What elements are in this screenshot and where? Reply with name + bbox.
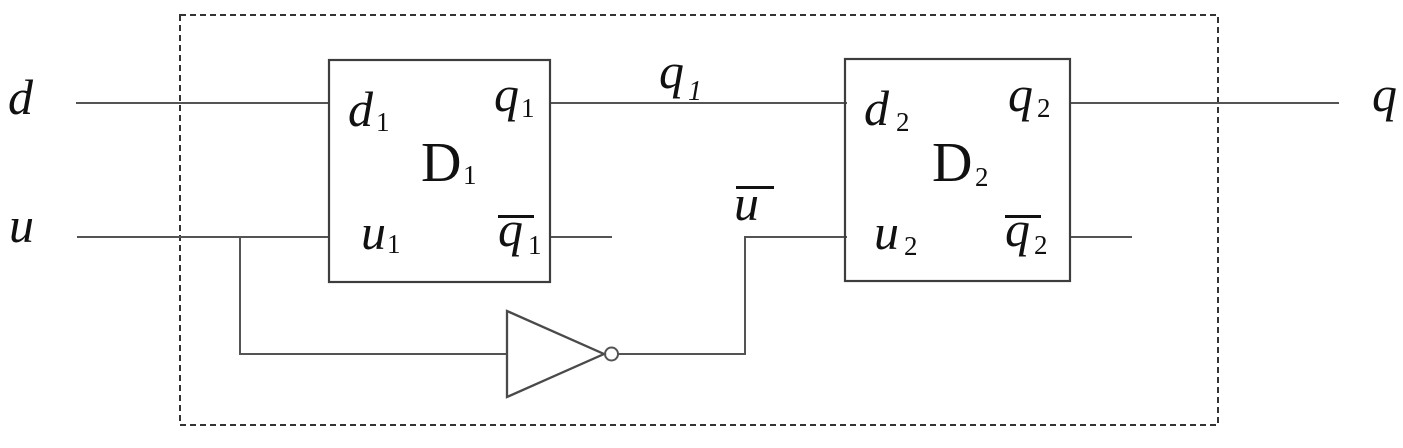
- label D2: [932, 132, 989, 194]
- svg-text:1: 1: [688, 76, 702, 107]
- svg-text:u: u: [734, 175, 759, 231]
- svg-text:q: q: [1372, 66, 1397, 122]
- svg-text:u: u: [874, 204, 899, 260]
- svg-text:1: 1: [528, 230, 542, 260]
- svg-text:2: 2: [1037, 93, 1051, 123]
- dashed enclosure border: [180, 15, 1218, 425]
- pin d1: [348, 81, 390, 137]
- wire rise to ubar: [744, 237, 746, 355]
- svg-text:1: 1: [463, 160, 477, 190]
- pin qbar1: [498, 201, 542, 260]
- pin qbar2: [1005, 201, 1048, 260]
- svg-text:q: q: [1008, 66, 1033, 122]
- svg-text:2: 2: [975, 162, 989, 192]
- svg-text:D: D: [421, 132, 461, 194]
- wire u input to D1: [77, 236, 329, 238]
- label D1: [421, 132, 477, 194]
- svg-text:q: q: [1005, 201, 1030, 257]
- wire d input to D1: [76, 102, 329, 104]
- wire junction drop from u: [239, 237, 241, 355]
- svg-text:u: u: [361, 204, 386, 260]
- svg-text:d: d: [8, 69, 34, 125]
- pin q1: [494, 66, 535, 123]
- pin d2: [864, 80, 910, 137]
- node q1 (wire label): [659, 43, 702, 107]
- pin u2: [874, 204, 918, 261]
- D latch D1 box: [329, 60, 550, 282]
- pin u1: [361, 204, 401, 260]
- svg-text:1: 1: [387, 229, 401, 259]
- svg-text:d: d: [348, 81, 374, 137]
- svg-text:2: 2: [904, 231, 918, 261]
- pin q2: [1008, 66, 1051, 123]
- svg-text:D: D: [932, 132, 972, 194]
- svg-text:q: q: [494, 66, 519, 122]
- node ubar (wire label): [734, 175, 774, 231]
- wire qbar2 stub: [1070, 236, 1132, 238]
- wire inverter output: [618, 353, 745, 355]
- svg-text:q: q: [659, 43, 684, 99]
- wire q1 from D1 to D2: [550, 102, 847, 104]
- svg-text:2: 2: [896, 107, 910, 137]
- svg-text:u: u: [9, 197, 34, 253]
- wire to inverter input: [239, 353, 507, 355]
- wire qbar1 stub: [550, 236, 612, 238]
- svg-text:2: 2: [1034, 230, 1048, 260]
- D latch D2 box: [845, 59, 1070, 281]
- wire ubar to D2: [744, 236, 847, 238]
- svg-text:q: q: [498, 201, 523, 257]
- wire q output from D2: [1070, 102, 1339, 104]
- svg-text:1: 1: [376, 107, 390, 137]
- svg-text:1: 1: [521, 93, 535, 123]
- svg-text:d: d: [864, 80, 890, 136]
- inverter U1: [507, 311, 618, 397]
